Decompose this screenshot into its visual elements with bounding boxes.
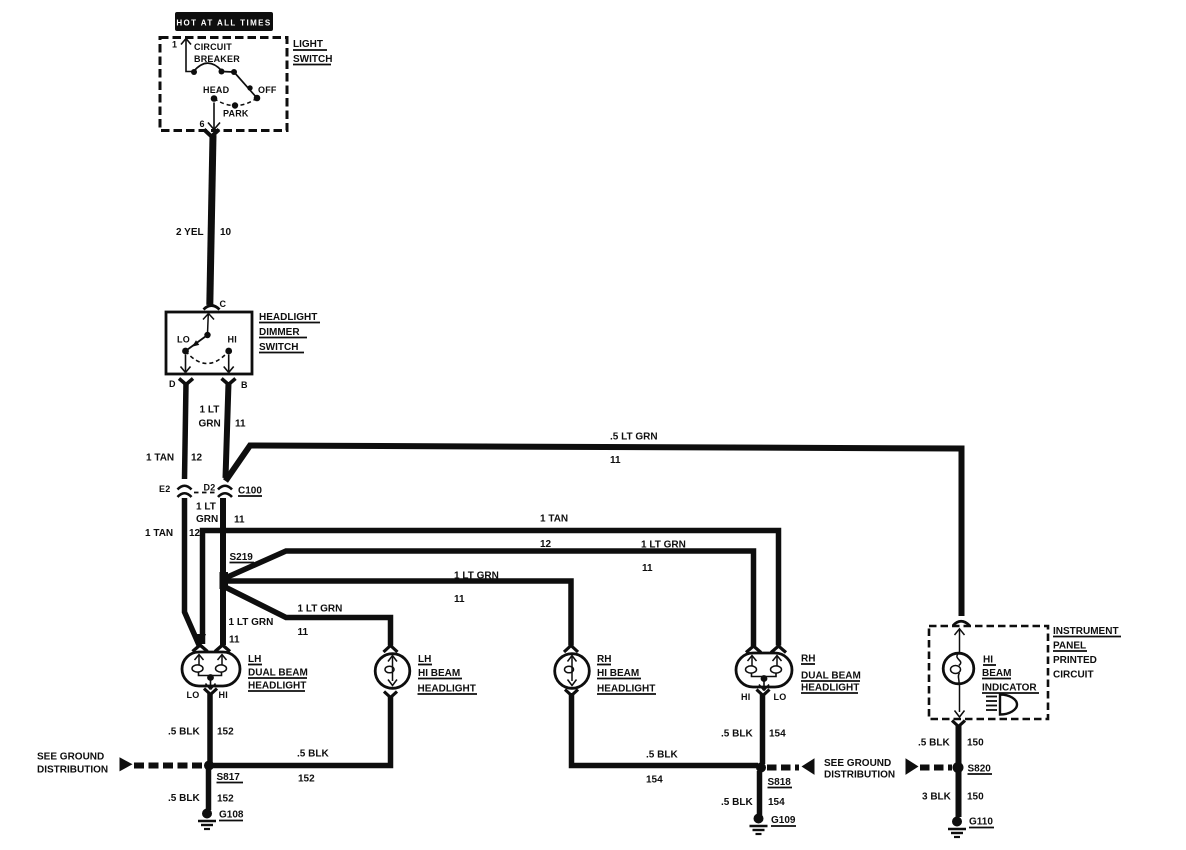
svg-text:C100: C100 — [238, 486, 262, 497]
svg-text:S817: S817 — [217, 772, 241, 783]
svg-text:11: 11 — [234, 515, 245, 526]
svg-text:.5 LT GRN: .5 LT GRN — [610, 432, 658, 443]
svg-text:6: 6 — [200, 119, 205, 129]
svg-text:1 LT: 1 LT — [196, 502, 216, 513]
svg-text:11: 11 — [298, 627, 309, 638]
svg-text:DIMMER: DIMMER — [259, 327, 300, 338]
svg-text:12: 12 — [189, 528, 201, 539]
svg-text:.5 BLK: .5 BLK — [721, 729, 753, 740]
svg-text:1 LT GRN: 1 LT GRN — [641, 540, 686, 551]
svg-text:OFF: OFF — [258, 85, 277, 95]
svg-text:12: 12 — [540, 539, 552, 550]
svg-text:.5 BLK: .5 BLK — [721, 797, 753, 808]
svg-text:GRN: GRN — [199, 419, 221, 430]
svg-text:D2: D2 — [204, 483, 216, 493]
svg-text:150: 150 — [967, 738, 984, 749]
svg-text:1 LT: 1 LT — [200, 405, 220, 416]
svg-text:INDICATOR: INDICATOR — [982, 683, 1037, 694]
svg-text:D: D — [169, 379, 176, 389]
svg-text:1 LT GRN: 1 LT GRN — [298, 604, 343, 615]
svg-text:154: 154 — [646, 775, 663, 786]
svg-text:RH: RH — [597, 654, 611, 665]
svg-text:HI: HI — [228, 335, 237, 345]
svg-text:LO: LO — [187, 690, 200, 700]
svg-text:11: 11 — [235, 419, 246, 430]
svg-text:HI BEAM: HI BEAM — [418, 668, 460, 679]
svg-text:HEADLIGHT: HEADLIGHT — [259, 312, 317, 323]
svg-text:152: 152 — [217, 727, 234, 738]
svg-text:HI: HI — [219, 690, 228, 700]
svg-text:HEADLIGHT: HEADLIGHT — [801, 683, 859, 694]
svg-text:3 BLK: 3 BLK — [922, 792, 952, 803]
svg-text:1 LT GRN: 1 LT GRN — [229, 617, 274, 628]
svg-text:E2: E2 — [159, 484, 170, 494]
svg-text:154: 154 — [768, 797, 785, 808]
svg-text:SWITCH: SWITCH — [259, 342, 298, 353]
svg-text:1: 1 — [172, 40, 177, 50]
svg-text:LIGHT: LIGHT — [293, 39, 323, 50]
svg-text:G108: G108 — [219, 810, 244, 821]
svg-text:1 TAN: 1 TAN — [145, 528, 173, 539]
svg-text:10: 10 — [220, 227, 232, 238]
svg-text:152: 152 — [217, 794, 234, 805]
svg-text:1 TAN: 1 TAN — [146, 453, 174, 464]
svg-text:HOT AT ALL TIMES: HOT AT ALL TIMES — [176, 19, 271, 28]
svg-text:SWITCH: SWITCH — [293, 54, 332, 65]
svg-text:154: 154 — [769, 729, 786, 740]
svg-text:HEADLIGHT: HEADLIGHT — [418, 684, 476, 695]
svg-text:BEAM: BEAM — [982, 668, 1011, 679]
svg-text:HEADLIGHT: HEADLIGHT — [597, 684, 655, 695]
svg-text:G110: G110 — [969, 817, 993, 828]
svg-text:11: 11 — [229, 635, 240, 646]
svg-text:PANEL: PANEL — [1053, 641, 1086, 652]
svg-text:LH: LH — [418, 654, 431, 665]
svg-text:LO: LO — [177, 335, 190, 345]
svg-text:HEAD: HEAD — [203, 85, 230, 95]
svg-text:PARK: PARK — [223, 109, 249, 119]
svg-text:LO: LO — [774, 692, 787, 702]
svg-text:1 TAN: 1 TAN — [540, 514, 568, 525]
svg-text:INSTRUMENT: INSTRUMENT — [1053, 626, 1119, 637]
svg-text:S219: S219 — [230, 552, 254, 563]
svg-text:.5 BLK: .5 BLK — [297, 749, 329, 760]
svg-text:1 LT GRN: 1 LT GRN — [454, 571, 499, 582]
svg-text:S820: S820 — [968, 764, 992, 775]
svg-text:SEE GROUND: SEE GROUND — [824, 758, 891, 769]
svg-text:11: 11 — [610, 455, 621, 466]
svg-text:PRINTED: PRINTED — [1053, 655, 1097, 666]
svg-text:DUAL BEAM: DUAL BEAM — [248, 668, 308, 679]
svg-text:S818: S818 — [768, 777, 792, 788]
svg-text:HI: HI — [741, 692, 750, 702]
svg-text:DISTRIBUTION: DISTRIBUTION — [37, 765, 108, 776]
svg-text:.5 BLK: .5 BLK — [168, 793, 200, 804]
svg-text:SEE GROUND: SEE GROUND — [37, 752, 104, 763]
svg-text:11: 11 — [454, 594, 465, 605]
svg-text:G109: G109 — [771, 815, 796, 826]
svg-text:CIRCUIT: CIRCUIT — [194, 42, 232, 52]
svg-text:HI BEAM: HI BEAM — [597, 668, 639, 679]
svg-text:2 YEL: 2 YEL — [176, 227, 204, 238]
svg-text:RH: RH — [801, 654, 815, 665]
svg-text:GRN: GRN — [196, 514, 218, 525]
svg-text:.5 BLK: .5 BLK — [646, 750, 678, 761]
svg-text:150: 150 — [967, 792, 984, 803]
svg-text:DISTRIBUTION: DISTRIBUTION — [824, 770, 895, 781]
svg-text:152: 152 — [298, 774, 315, 785]
svg-text:DUAL BEAM: DUAL BEAM — [801, 671, 861, 682]
svg-text:C: C — [220, 299, 227, 309]
svg-text:B: B — [241, 380, 248, 390]
svg-text:11: 11 — [642, 563, 653, 574]
svg-text:HI: HI — [983, 655, 993, 666]
svg-text:CIRCUIT: CIRCUIT — [1053, 670, 1094, 681]
svg-text:.5 BLK: .5 BLK — [918, 738, 950, 749]
svg-text:.5 BLK: .5 BLK — [168, 727, 200, 738]
svg-text:HEADLIGHT: HEADLIGHT — [248, 681, 306, 692]
svg-text:LH: LH — [248, 654, 261, 665]
svg-text:BREAKER: BREAKER — [194, 54, 240, 64]
svg-text:12: 12 — [191, 453, 203, 464]
